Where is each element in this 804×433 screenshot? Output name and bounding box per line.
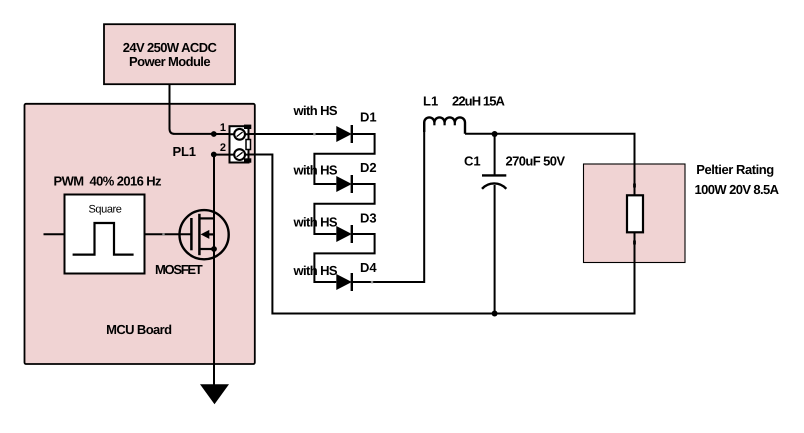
wire through peltier — [634, 164, 636, 263]
transistor Q1 MOSFET — [180, 210, 229, 259]
svg-text:MOSFET: MOSFET — [155, 262, 203, 277]
wire from power module to PL1 pin 1 — [170, 84, 214, 134]
svg-text:100W 20V 8.5A: 100W 20V 8.5A — [695, 182, 780, 197]
svg-text:with HS: with HS — [293, 263, 338, 278]
svg-text:D3: D3 — [360, 210, 377, 225]
svg-text:MCU Board: MCU Board — [106, 322, 172, 337]
svg-text:L1: L1 — [423, 94, 438, 109]
diode D4 — [336, 273, 352, 291]
svg-text:Power Module: Power Module — [129, 54, 210, 69]
wire C1 bottom — [494, 185, 496, 314]
wire endpoint marker — [162, 233, 164, 235]
power module PS1 — [104, 24, 235, 84]
wire pin2 out to bottom rail — [249, 155, 635, 314]
wire pin2 to MOSFET drain and ground — [213, 155, 215, 386]
MCU board — [25, 104, 255, 364]
svg-text:PL1: PL1 — [173, 144, 196, 159]
resistor RT1 (peltier element) — [627, 195, 643, 232]
inductor L1 — [434, 123, 454, 126]
svg-text:270uF 50V: 270uF 50V — [506, 154, 566, 169]
svg-text:D4: D4 — [360, 260, 377, 275]
wire endpoint marker on D1 row — [313, 133, 315, 135]
wire D1 to D2 zigzag — [314, 134, 374, 184]
pin stub above peltier resistor — [633, 184, 636, 188]
wire square generator input stub — [44, 233, 65, 235]
wire pin1 through connector — [230, 133, 248, 135]
diode D3 — [336, 225, 352, 243]
node pin1 junction — [211, 131, 217, 137]
node pin2 junction — [211, 152, 217, 158]
svg-text:with HS: with HS — [293, 103, 338, 118]
node LC junction — [492, 131, 498, 137]
svg-text:22uH 15A: 22uH 15A — [452, 94, 506, 109]
wire D4 cathode to inductor — [352, 123, 424, 283]
svg-text:with HS: with HS — [293, 163, 338, 178]
svg-text:Square: Square — [88, 204, 121, 216]
wire square box output to MOSFET gate — [145, 233, 192, 235]
square wave glyph — [73, 223, 134, 255]
wire D2 to D3 zigzag — [314, 184, 374, 234]
node C1 bottom junction — [492, 311, 498, 317]
pin stub below peltier resistor — [633, 241, 636, 245]
wire pin1 row to D1 anode — [214, 133, 336, 135]
wire C1 top — [494, 134, 496, 175]
wire D3 to D4 zigzag — [314, 234, 374, 282]
peltier block — [584, 164, 686, 263]
wire endpoint marker on D4 row — [371, 281, 373, 283]
diode D2 — [336, 175, 352, 193]
svg-text:2: 2 — [220, 142, 226, 154]
wire inductor to peltier top — [465, 134, 635, 196]
svg-text:with HS: with HS — [293, 215, 338, 230]
square wave source box — [65, 195, 145, 274]
connector PL1 — [214, 125, 252, 163]
ground — [200, 384, 229, 404]
svg-text:C1: C1 — [464, 154, 481, 169]
diode D1 — [336, 125, 352, 143]
svg-text:D2: D2 — [360, 160, 377, 175]
svg-text:24V 250W ACDC: 24V 250W ACDC — [123, 40, 218, 55]
svg-text:Peltier Rating: Peltier Rating — [696, 162, 774, 177]
svg-text:D1: D1 — [360, 110, 377, 125]
svg-text:PWM 40% 2016 Hz: PWM 40% 2016 Hz — [54, 174, 163, 189]
wire pin2 through connector — [214, 154, 248, 156]
capacitor C1 — [482, 175, 506, 188]
svg-text:1: 1 — [220, 122, 226, 134]
